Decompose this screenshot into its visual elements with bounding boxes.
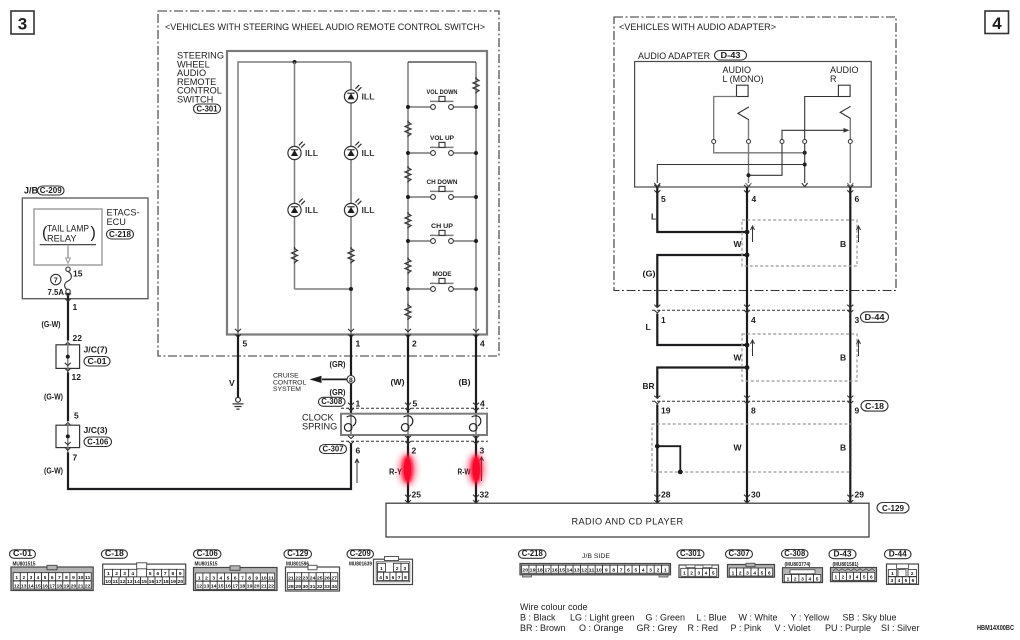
- up arrow pin6 wire: [355, 459, 359, 483]
- svg-text:22: 22: [268, 584, 274, 590]
- svg-text:2: 2: [205, 575, 208, 581]
- svg-text:7: 7: [58, 575, 61, 581]
- svg-text:5: 5: [243, 339, 248, 349]
- svg-text:3: 3: [30, 575, 33, 581]
- resistor ladder 2: [405, 166, 411, 183]
- svg-text:25: 25: [412, 490, 422, 500]
- svg-text:1: 1: [107, 571, 110, 577]
- svg-text:<VEHICLES WITH AUDIO ADAPTER>: <VEHICLES WITH AUDIO ADAPTER>: [619, 22, 776, 32]
- svg-text:3: 3: [746, 570, 749, 576]
- svg-text:SB : Sky blue: SB : Sky blue: [843, 613, 897, 623]
- red highlight on R-Y wire: [399, 453, 416, 486]
- svg-text:(B): (B): [459, 377, 471, 387]
- svg-text:28: 28: [661, 490, 671, 500]
- wire: (G-W) from J/C(3) to clock spring pin 6: [44, 443, 351, 489]
- wire: J/B fuse output pin 1 (G-W): [65, 293, 78, 340]
- svg-text:6: 6: [855, 194, 860, 204]
- svg-text:26: 26: [324, 575, 330, 581]
- svg-text:32: 32: [317, 584, 323, 590]
- svg-text:8: 8: [349, 377, 353, 384]
- svg-text:30: 30: [303, 584, 309, 590]
- switch CH UP row: [406, 223, 478, 244]
- svg-text:B: B: [840, 443, 846, 453]
- svg-text:): ): [91, 225, 96, 242]
- clock spring block: [302, 413, 487, 436]
- svg-text:16: 16: [149, 579, 155, 585]
- svg-text:1: 1: [664, 568, 667, 574]
- label: steering wheel audio remote control switch: [177, 51, 224, 114]
- svg-text:2: 2: [842, 575, 845, 581]
- connector D-43 pinout: [829, 550, 877, 582]
- connector C-18 row: [652, 396, 888, 416]
- svg-text:Wire colour code: Wire colour code: [520, 602, 588, 612]
- svg-text:SPRING: SPRING: [302, 422, 337, 432]
- svg-text:6: 6: [627, 568, 630, 574]
- svg-text:11: 11: [589, 568, 595, 574]
- LED ILL A1: [288, 142, 318, 160]
- svg-text:3: 3: [480, 446, 485, 456]
- svg-text:4: 4: [480, 399, 485, 409]
- svg-text:4: 4: [480, 339, 485, 349]
- svg-text:15: 15: [73, 269, 83, 279]
- svg-text:17: 17: [232, 584, 238, 590]
- wire: ILL column B: [295, 62, 354, 335]
- connector C-301 pins 5 1 2 4: [235, 329, 485, 349]
- svg-text:4: 4: [751, 315, 756, 325]
- tail lamp relay box: [34, 209, 102, 265]
- switch VOL UP row: [406, 135, 478, 156]
- wire: pin 1 (GR) to clock spring: [330, 335, 352, 415]
- svg-text:2: 2: [22, 575, 25, 581]
- svg-text:MODE: MODE: [433, 271, 453, 278]
- svg-text:2: 2: [690, 571, 693, 577]
- wire: pin 5 to ground: [229, 335, 238, 398]
- svg-text:19: 19: [64, 583, 70, 589]
- svg-text:1: 1: [683, 571, 686, 577]
- resistor top right rail: [473, 77, 479, 94]
- audio R jack: [830, 65, 859, 96]
- svg-text:B : Black: B : Black: [520, 613, 556, 623]
- svg-text:2: 2: [794, 576, 797, 582]
- svg-text:3: 3: [849, 575, 852, 581]
- svg-text:22: 22: [295, 575, 301, 581]
- svg-text:6: 6: [912, 578, 915, 584]
- svg-text:RELAY: RELAY: [47, 234, 76, 244]
- option frame: vehicles with steering wheel audio remote control switch: [158, 11, 499, 356]
- svg-text:R: R: [830, 74, 837, 84]
- svg-text:C-308: C-308: [321, 397, 343, 406]
- wire: R switch contact to pin 6: [848, 119, 852, 184]
- svg-text:AUDIO ADAPTER: AUDIO ADAPTER: [638, 51, 710, 61]
- svg-text:3: 3: [212, 575, 215, 581]
- svg-text:L (MONO): L (MONO): [723, 74, 764, 84]
- clock spring coil 1: [344, 414, 355, 435]
- wire: (G-W) between joint connectors: [44, 372, 68, 421]
- svg-text:1: 1: [15, 575, 18, 581]
- svg-text:18: 18: [537, 568, 543, 574]
- svg-text:16: 16: [225, 584, 231, 590]
- svg-text:12: 12: [120, 579, 126, 585]
- svg-text:D-44: D-44: [865, 313, 885, 322]
- svg-text:4: 4: [808, 576, 811, 582]
- wire: L from pin 5: [651, 187, 749, 234]
- svg-text:8: 8: [612, 568, 615, 574]
- svg-text:4: 4: [992, 14, 1002, 33]
- svg-text:19: 19: [661, 406, 671, 416]
- svg-text:5: 5: [413, 399, 418, 409]
- resistor ladder 3: [405, 212, 411, 229]
- svg-text:19: 19: [530, 568, 536, 574]
- svg-text:CH DOWN: CH DOWN: [427, 179, 458, 186]
- wire: branch to R switch contact: [749, 128, 850, 175]
- svg-text:LG : Light green: LG : Light green: [570, 613, 635, 623]
- svg-text:1: 1: [787, 576, 790, 582]
- svg-text:5: 5: [816, 576, 819, 582]
- svg-text:C-18: C-18: [865, 402, 884, 411]
- svg-text:14: 14: [28, 583, 34, 589]
- svg-text:R : Red: R : Red: [688, 623, 719, 633]
- svg-text:C-301: C-301: [197, 104, 219, 113]
- svg-text:12: 12: [581, 568, 587, 574]
- joint connector J/C(7) C-01: [56, 333, 110, 382]
- svg-text:12: 12: [197, 584, 203, 590]
- svg-text:5: 5: [227, 575, 230, 581]
- svg-text:Y : Yellow: Y : Yellow: [791, 613, 830, 623]
- svg-text:7: 7: [164, 571, 167, 577]
- connector C-106 pinout: [194, 549, 278, 590]
- page number 4 box: [985, 11, 1009, 34]
- shield box 1: [734, 220, 861, 266]
- svg-text:SYSTEM: SYSTEM: [273, 386, 301, 393]
- svg-text:29: 29: [855, 490, 865, 500]
- svg-text:2: 2: [657, 568, 660, 574]
- svg-text:8: 8: [171, 571, 174, 577]
- svg-text:18: 18: [240, 584, 246, 590]
- svg-text:(G-W): (G-W): [44, 466, 63, 476]
- connector C-01 pinout: [10, 549, 94, 590]
- svg-text:19: 19: [170, 579, 176, 585]
- svg-text:5: 5: [385, 575, 388, 581]
- connector C-218 pinout (J/B side): [519, 549, 671, 577]
- svg-text:18: 18: [163, 579, 169, 585]
- connector C-308 row: [319, 397, 489, 411]
- wire: mono bridge to pin 5: [657, 165, 804, 184]
- svg-text:C-106: C-106: [197, 549, 219, 558]
- wire colour code legend: [520, 602, 920, 633]
- svg-text:C-218: C-218: [109, 230, 132, 239]
- svg-text:5: 5: [44, 575, 47, 581]
- svg-text:V : Violet: V : Violet: [775, 623, 811, 633]
- up arrow R-W wire: [480, 457, 484, 481]
- switch MODE row: [406, 271, 478, 292]
- svg-text:ILL: ILL: [305, 149, 318, 158]
- svg-text:4: 4: [705, 571, 708, 577]
- svg-text:TAIL LAMP: TAIL LAMP: [47, 224, 89, 234]
- svg-text:6: 6: [392, 575, 395, 581]
- svg-text:15: 15: [141, 579, 147, 585]
- svg-text:D-43: D-43: [721, 51, 741, 60]
- switch contact L: [738, 107, 749, 120]
- svg-text:W: W: [734, 443, 743, 453]
- svg-text:1: 1: [356, 399, 361, 409]
- LED ILL A2: [288, 199, 318, 217]
- wire: B from pin 6 to radio pin 29: [849, 187, 851, 503]
- audio L (mono) jack: [723, 65, 764, 96]
- svg-text:2: 2: [911, 571, 914, 577]
- svg-text:5: 5: [74, 411, 79, 421]
- option frame: vehicles with audio adapter: [614, 17, 896, 291]
- audio adapter block D-43: [635, 51, 872, 188]
- svg-text:2: 2: [412, 446, 417, 456]
- svg-text:HBM14X00BC: HBM14X00BC: [977, 625, 1014, 632]
- svg-text:ILL: ILL: [362, 149, 375, 158]
- svg-text:6: 6: [768, 570, 771, 576]
- clock spring coil 2: [401, 414, 412, 435]
- svg-text:16: 16: [552, 568, 558, 574]
- svg-text:5: 5: [761, 570, 764, 576]
- svg-text:C-01: C-01: [88, 357, 108, 366]
- wire: shield drain stub: [655, 444, 683, 474]
- svg-text:3: 3: [801, 576, 804, 582]
- svg-text:7: 7: [54, 275, 58, 284]
- svg-text:21: 21: [288, 575, 294, 581]
- svg-text:32: 32: [480, 490, 490, 500]
- fuse 7 (7.5A) pin 15: [48, 267, 83, 297]
- switch CH DOWN row: [406, 179, 478, 200]
- svg-text:22: 22: [85, 583, 91, 589]
- wire: L jack tip to mono bridge: [712, 97, 807, 155]
- svg-text:7: 7: [398, 575, 401, 581]
- radio pins 25 32: [405, 490, 489, 503]
- svg-text:RADIO AND CD PLAYER: RADIO AND CD PLAYER: [571, 517, 683, 527]
- svg-text:24: 24: [310, 575, 316, 581]
- svg-text:G : Green: G : Green: [646, 613, 686, 623]
- svg-text:4: 4: [379, 575, 382, 581]
- svg-text:6: 6: [156, 571, 159, 577]
- svg-text:ECU: ECU: [107, 217, 126, 227]
- junction block J/B C-209: [22, 186, 148, 299]
- connector C-307 row: [320, 436, 489, 456]
- svg-text:ILL: ILL: [305, 206, 318, 215]
- svg-text:C-209: C-209: [350, 549, 372, 558]
- steering wheel audio remote control switch block C-301: [227, 51, 487, 335]
- svg-text:4: 4: [131, 571, 134, 577]
- svg-text:2: 2: [412, 339, 417, 349]
- svg-text:C-307: C-307: [729, 549, 750, 558]
- svg-text:7: 7: [620, 568, 623, 574]
- wire: W from pin 4 to radio pin 30: [746, 187, 748, 503]
- svg-text:21: 21: [261, 584, 267, 590]
- svg-text:MU801639: MU801639: [349, 562, 372, 568]
- svg-text:4: 4: [642, 568, 645, 574]
- svg-text:ETACS-: ETACS-: [107, 208, 140, 218]
- wire label R-W: [458, 467, 472, 477]
- svg-text:3: 3: [403, 566, 406, 572]
- svg-text:17: 17: [544, 568, 550, 574]
- svg-text:4: 4: [898, 578, 901, 584]
- svg-text:3: 3: [18, 15, 27, 34]
- svg-text:4: 4: [752, 194, 757, 204]
- svg-text:C-301: C-301: [680, 549, 702, 558]
- svg-text:MU801515: MU801515: [195, 562, 218, 568]
- ground: [233, 397, 244, 409]
- svg-text:15: 15: [559, 568, 565, 574]
- svg-text:J/C(3): J/C(3): [84, 425, 108, 435]
- svg-text:11: 11: [85, 575, 91, 581]
- svg-text:13: 13: [21, 583, 27, 589]
- svg-text:29: 29: [295, 584, 301, 590]
- svg-text:C-307: C-307: [323, 444, 345, 453]
- svg-text:C-129: C-129: [882, 504, 904, 513]
- svg-text:ILL: ILL: [362, 206, 375, 215]
- joint connector J/C(3) C-106: [56, 411, 112, 463]
- svg-text:8: 8: [65, 575, 68, 581]
- adapter pin arrows: [654, 183, 853, 187]
- svg-text:L: L: [646, 322, 651, 332]
- svg-text:10: 10: [105, 579, 111, 585]
- svg-text:15: 15: [35, 583, 41, 589]
- connector C-18 pinout: [101, 549, 185, 585]
- svg-text:B: B: [840, 239, 846, 249]
- svg-text:1: 1: [356, 339, 361, 349]
- svg-text:17: 17: [49, 583, 55, 589]
- clock spring coil 3: [469, 414, 480, 435]
- svg-text:7: 7: [73, 453, 78, 463]
- svg-text:6: 6: [234, 575, 237, 581]
- wire: switch internal bus (top): [238, 60, 351, 335]
- shield box 2: [734, 334, 861, 381]
- svg-text:B: B: [840, 353, 846, 363]
- resistor ILL A: [292, 247, 298, 264]
- svg-text:13: 13: [127, 579, 133, 585]
- svg-text:13: 13: [574, 568, 580, 574]
- resistor ladder 4: [405, 258, 411, 275]
- svg-text:GR : Grey: GR : Grey: [637, 623, 678, 633]
- svg-text:11: 11: [268, 575, 274, 581]
- svg-text:33: 33: [324, 584, 330, 590]
- resistor ILL B: [348, 247, 354, 264]
- svg-text:(G): (G): [643, 269, 656, 279]
- svg-text:31: 31: [310, 584, 316, 590]
- wire: from C-18 pin 19 down to radio pin 28: [656, 405, 658, 504]
- svg-text:VOL UP: VOL UP: [430, 135, 455, 142]
- radio and cd player block C-129: [386, 503, 909, 538]
- svg-text:14: 14: [567, 568, 573, 574]
- connector D-44 pinout: [885, 550, 919, 585]
- svg-text:L: L: [651, 212, 656, 222]
- svg-text:20: 20: [71, 583, 77, 589]
- svg-text:1: 1: [732, 570, 735, 576]
- svg-text:27: 27: [331, 575, 337, 581]
- ETACS-ECU label C-218: [107, 208, 140, 240]
- drawing number: [977, 625, 1014, 632]
- connector C-308 pinout: [782, 549, 823, 583]
- svg-text:9: 9: [255, 575, 258, 581]
- wire: (G) branch to D-44 pin 1: [643, 253, 750, 308]
- switch VOL DOWN row: [406, 89, 478, 110]
- svg-text:5: 5: [712, 571, 715, 577]
- svg-text:1: 1: [73, 302, 78, 312]
- svg-text:ILL: ILL: [362, 93, 375, 102]
- connector D-44 row: [652, 305, 889, 325]
- svg-text:8: 8: [751, 406, 756, 416]
- wire: BR branch to C-18 pin 19: [643, 365, 750, 398]
- LED ILL B3: [344, 199, 374, 217]
- svg-text:6: 6: [356, 446, 361, 456]
- svg-text:4: 4: [856, 575, 859, 581]
- svg-text:3: 3: [855, 315, 860, 325]
- svg-text:16: 16: [42, 583, 48, 589]
- wire: L from D-44 pin 1: [646, 314, 750, 348]
- svg-text:20: 20: [522, 568, 528, 574]
- svg-text:7.5A: 7.5A: [48, 288, 65, 297]
- svg-text:1: 1: [661, 315, 666, 325]
- svg-text:9: 9: [179, 571, 182, 577]
- svg-text:(GR): (GR): [330, 387, 346, 397]
- svg-text:5: 5: [661, 194, 666, 204]
- svg-text:4: 4: [219, 575, 222, 581]
- svg-text:C-129: C-129: [287, 549, 309, 558]
- wire: switch ladder right rail: [408, 62, 476, 335]
- svg-text:PU : Purple: PU : Purple: [825, 623, 871, 633]
- svg-text:9: 9: [855, 406, 860, 416]
- svg-text:10: 10: [78, 575, 84, 581]
- svg-text:3: 3: [649, 568, 652, 574]
- svg-text:19: 19: [247, 584, 253, 590]
- svg-text:2: 2: [396, 566, 399, 572]
- svg-text:1: 1: [891, 571, 894, 577]
- svg-text:28: 28: [288, 584, 294, 590]
- svg-text:C-18: C-18: [105, 549, 125, 558]
- resistor ladder 5: [405, 304, 411, 321]
- svg-text:C-106: C-106: [87, 437, 109, 446]
- svg-text:14: 14: [211, 584, 217, 590]
- svg-text:1: 1: [198, 575, 201, 581]
- svg-text:D-43: D-43: [834, 550, 853, 559]
- svg-text:C-01: C-01: [13, 549, 33, 558]
- connector C-307 pinout: [726, 549, 775, 577]
- svg-text:30: 30: [751, 490, 761, 500]
- wire: ILL column A: [294, 62, 296, 289]
- svg-text:5: 5: [149, 571, 152, 577]
- svg-text:J/B: J/B: [24, 186, 39, 196]
- svg-text:C-308: C-308: [784, 549, 806, 558]
- svg-text:3: 3: [697, 571, 700, 577]
- svg-text:BR : Brown: BR : Brown: [520, 623, 566, 633]
- svg-text:21: 21: [78, 583, 84, 589]
- svg-text:1: 1: [834, 575, 837, 581]
- svg-text:(G-W): (G-W): [42, 319, 61, 329]
- svg-text:5: 5: [905, 578, 908, 584]
- svg-text:V: V: [229, 378, 235, 388]
- svg-text:3: 3: [890, 578, 893, 584]
- LED ILL B2: [344, 142, 374, 160]
- radio pins 28 30 29: [654, 490, 864, 503]
- svg-text:8: 8: [248, 575, 251, 581]
- svg-text:4: 4: [753, 570, 756, 576]
- svg-text:10: 10: [261, 575, 267, 581]
- svg-text:SWITCH: SWITCH: [177, 95, 213, 105]
- svg-text:2: 2: [739, 570, 742, 576]
- red highlight on R-W wire: [468, 453, 485, 486]
- connector C-129 pinout: [284, 549, 340, 591]
- svg-text:20: 20: [254, 584, 260, 590]
- switch contact R: [840, 106, 850, 118]
- svg-text:L : Blue: L : Blue: [697, 613, 727, 623]
- svg-text:12: 12: [72, 372, 82, 382]
- svg-text:(GR): (GR): [330, 359, 346, 369]
- svg-text:9: 9: [605, 568, 608, 574]
